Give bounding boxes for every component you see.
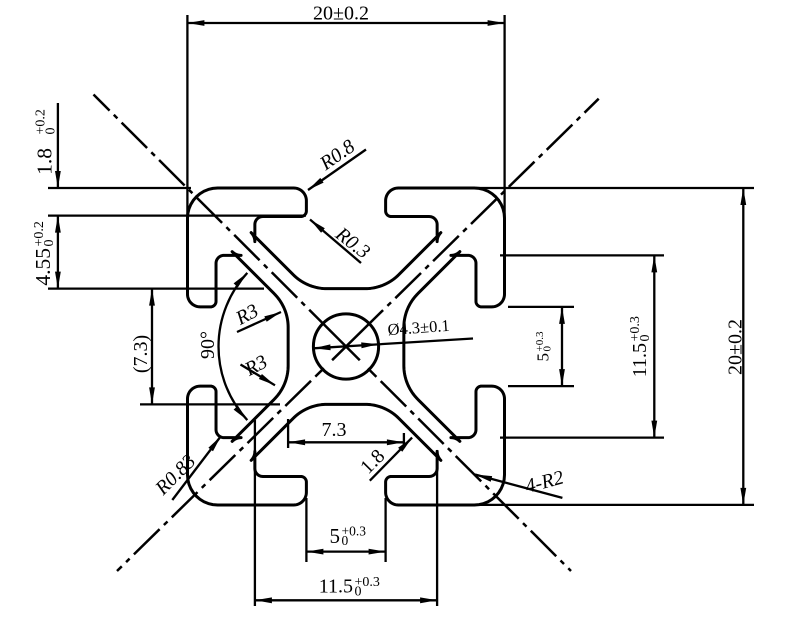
svg-text:5: 5 [534,353,553,362]
svg-text:7.3: 7.3 [322,419,347,441]
svg-text:1.8: 1.8 [33,148,57,175]
svg-text:90°: 90° [197,331,219,359]
svg-text:(7.3): (7.3) [130,335,152,373]
svg-text:0: 0 [542,346,554,352]
svg-text:11.5: 11.5 [629,343,651,377]
svg-text:5: 5 [330,524,341,548]
svg-text:0: 0 [342,533,349,548]
svg-text:0: 0 [638,335,653,342]
svg-text:20±0.2: 20±0.2 [725,319,747,375]
svg-text:0: 0 [42,240,57,247]
svg-text:0: 0 [43,128,58,135]
svg-text:4.55: 4.55 [31,248,55,286]
svg-text:20±0.2: 20±0.2 [313,3,369,25]
svg-text:11.5: 11.5 [319,576,353,598]
svg-text:0: 0 [355,584,362,599]
